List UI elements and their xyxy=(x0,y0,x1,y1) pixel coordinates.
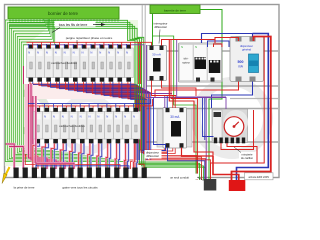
svg-text:N: N xyxy=(62,114,64,118)
main breaker output blue xyxy=(212,82,253,109)
svg-text:barrette de terre: barrette de terre xyxy=(164,8,186,12)
conduit exit box (dark) xyxy=(204,179,217,191)
svg-text:N: N xyxy=(133,114,135,118)
RCD breaker 30mA (bottom) xyxy=(157,109,192,147)
neutral comb bus (top row) xyxy=(27,44,135,46)
RCD switch 30mA (top) xyxy=(147,46,167,81)
trunking divider xyxy=(141,5,143,177)
neutral bus (bottom row) xyxy=(28,99,150,103)
svg-text:N: N xyxy=(81,51,83,55)
svg-text:N: N xyxy=(55,51,57,55)
earth terminal block label (bornier de terre) xyxy=(8,7,119,19)
bottom row fuse-carrier modules xyxy=(34,112,43,140)
fan haze xyxy=(30,83,135,99)
blue loop left of bottom RCD xyxy=(154,98,166,148)
pink sheathed cable glow xyxy=(25,84,33,154)
svg-text:télé-: télé- xyxy=(184,58,189,61)
violet run to timer xyxy=(147,45,227,109)
svg-text:N: N xyxy=(90,51,92,55)
svg-text:différentiel: différentiel xyxy=(154,25,167,29)
svg-text:différentiel: différentiel xyxy=(146,154,159,158)
earth wires right comb (bornier to conduit) xyxy=(9,20,198,180)
output wires bottom row to stubs xyxy=(33,143,37,169)
phase comb bus (top row) xyxy=(27,41,135,43)
red feed into RCD xyxy=(135,42,152,45)
svg-text:N: N xyxy=(28,51,30,55)
red trunk 2 xyxy=(171,40,198,181)
violet pair into bottom RCD xyxy=(164,96,166,108)
earth wire from barrette left xyxy=(152,14,154,48)
EDF feed red xyxy=(213,156,239,181)
svg-text:N: N xyxy=(37,51,39,55)
label un seul conduit xyxy=(161,174,198,180)
label arrivee EDF xyxy=(245,173,274,180)
extra magenta corner xyxy=(36,96,74,169)
svg-text:bornier de terre: bornier de terre xyxy=(48,11,79,16)
svg-text:N: N xyxy=(126,51,128,55)
violet link RCD to comb xyxy=(135,45,173,94)
interconnect fan top row to lower area xyxy=(30,82,135,169)
svg-text:N: N xyxy=(117,51,119,55)
svg-text:N: N xyxy=(108,51,110,55)
phase bus (bottom row) xyxy=(28,99,153,106)
supply riser blue xyxy=(237,34,269,182)
svg-text:N: N xyxy=(181,45,183,49)
label minuterie xyxy=(239,152,256,161)
bus end red drop pair xyxy=(138,42,140,84)
red trunk right of devices xyxy=(169,40,213,157)
svg-text:cartouches-fusibles: cartouches-fusibles xyxy=(59,124,85,128)
neutral drop to timer xyxy=(203,98,214,137)
svg-text:N: N xyxy=(80,114,82,118)
svg-text:gaine vers tous les circuits: gaine vers tous les circuits xyxy=(62,185,98,189)
violet bundle drop xyxy=(205,97,207,180)
svg-text:N: N xyxy=(73,51,75,55)
svg-text:N: N xyxy=(99,51,101,55)
violet gap wire xyxy=(177,40,226,97)
svg-text:disjoncteur: disjoncteur xyxy=(240,44,253,48)
top row fuse-carrier modules xyxy=(27,48,36,78)
svg-text:minuterie: minuterie xyxy=(241,153,253,157)
live wire loop to main breaker (blue) xyxy=(202,34,253,44)
svg-text:N: N xyxy=(115,114,117,118)
svg-text:la prise de terre: la prise de terre xyxy=(14,185,35,189)
main circuit breaker (disjoncteur général) xyxy=(230,37,264,82)
svg-text:disjoncteur: disjoncteur xyxy=(146,151,159,155)
svg-text:N: N xyxy=(53,114,55,118)
earth bundle haze left xyxy=(5,19,55,46)
RCD top output red b xyxy=(162,81,197,97)
magenta cable glow xyxy=(29,84,48,169)
remote switch / contactor unit xyxy=(179,43,223,82)
extra blue run bottom xyxy=(37,143,130,169)
DIN rail mid right xyxy=(230,98,278,100)
timer output red fan a xyxy=(221,110,254,150)
earth band overlay xyxy=(134,46,136,150)
live loop over contactor (blue) xyxy=(208,41,230,47)
earth bar label (barrette de terre) xyxy=(150,5,200,14)
earth comb teeth under bornier xyxy=(9,19,11,22)
extra magenta glow xyxy=(36,96,74,169)
earth wires left comb (bornier to output stubs) xyxy=(5,19,126,169)
magenta cable pair xyxy=(29,84,48,169)
magenta feeder upper xyxy=(23,66,25,84)
svg-text:cartouches-fusibles: cartouches-fusibles xyxy=(51,61,77,65)
svg-text:N: N xyxy=(195,45,197,49)
svg-text:un seul conduit: un seul conduit xyxy=(170,175,189,179)
live loop over contactor (red) xyxy=(214,44,223,47)
DIN rail bottom upper xyxy=(146,108,278,110)
svg-text:tous les fils de terre: tous les fils de terre xyxy=(59,23,88,27)
svg-text:rupteur: rupteur xyxy=(182,62,190,65)
svg-text:N: N xyxy=(124,114,126,118)
svg-text:500: 500 xyxy=(238,60,244,64)
supply riser red xyxy=(232,37,271,182)
svg-text:N: N xyxy=(44,114,46,118)
label RCD bottom xyxy=(145,150,162,159)
svg-text:peigne répartiteur phase et ne: peigne répartiteur phase et neutre xyxy=(66,36,113,40)
svg-text:interrupteur: interrupteur xyxy=(154,22,168,26)
RCD top output red a xyxy=(152,81,177,96)
bottom RCD output blue xyxy=(168,148,205,181)
DIN rail top xyxy=(146,50,278,52)
earth wire through device gap xyxy=(153,14,197,181)
svg-text:N: N xyxy=(97,114,99,118)
panel frame xyxy=(5,5,280,178)
main breaker output red xyxy=(155,82,239,99)
output cable terminal stubs xyxy=(14,168,19,179)
EDF supply cable box (red) xyxy=(229,180,246,191)
label tous les fils de terre xyxy=(55,21,96,27)
svg-text:30 mA: 30 mA xyxy=(152,52,161,56)
bottom RCD output red xyxy=(182,148,214,156)
svg-text:30 mA: 30 mA xyxy=(170,115,180,119)
output cable glow xyxy=(33,143,37,169)
red feeder wire left xyxy=(25,84,38,169)
earth rod arrow (yellow) xyxy=(6,167,10,175)
red feed horizontal xyxy=(162,40,216,46)
svg-text:N: N xyxy=(106,114,108,118)
earth wire from barrette right xyxy=(200,10,222,181)
svg-text:général: général xyxy=(242,48,251,52)
staircase timer (minuterie) xyxy=(212,109,248,143)
DIN rail bottom lower xyxy=(146,141,278,143)
DIN rail top lower xyxy=(146,85,278,87)
svg-text:N: N xyxy=(88,114,90,118)
live wire loop to main breaker (red) xyxy=(215,38,239,44)
svg-text:N: N xyxy=(71,114,73,118)
red pair into bottom RCD xyxy=(172,96,174,108)
RCD neutral return xyxy=(144,106,166,151)
timer output red fan b xyxy=(227,143,257,163)
svg-text:N: N xyxy=(64,51,66,55)
second red riser xyxy=(211,37,265,181)
svg-text:N: N xyxy=(46,51,48,55)
extra red run bottom xyxy=(25,154,120,169)
svg-text:du carillon: du carillon xyxy=(241,156,254,160)
svg-text:arrivée EDF 220V: arrivée EDF 220V xyxy=(248,175,269,179)
